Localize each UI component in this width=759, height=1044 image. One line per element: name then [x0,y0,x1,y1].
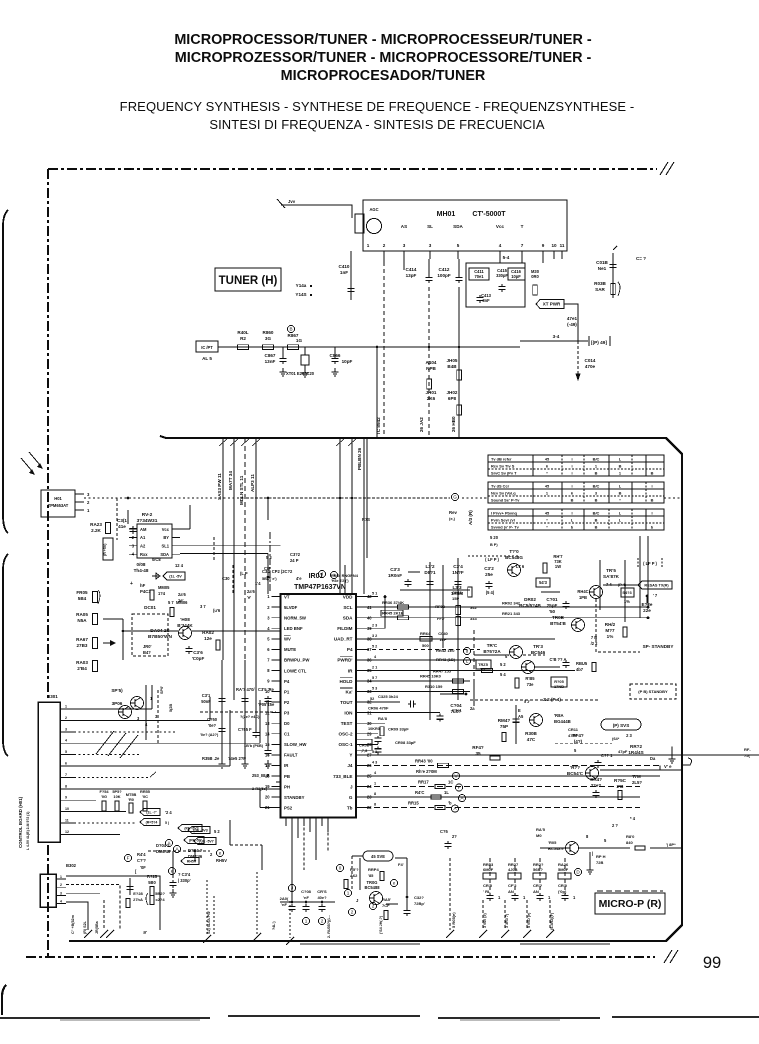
svg-text:LED BNF: LED BNF [284,626,303,631]
svg-text:C3?2: C3?2 [290,552,301,557]
svg-text:3-4: 3-4 [553,334,560,339]
svg-text:9: 9 [65,796,67,800]
resistor RR47 155 [482,668,493,672]
svg-text:2: 2 [372,904,375,909]
svg-text:22e: 22e [643,608,651,613]
svg-text:R860: R860 [263,330,274,335]
wire bottom right [540,847,565,849]
svg-text:Vcc: Vcc [162,527,170,532]
svg-text:P4: P4 [284,679,290,684]
svg-text:'e': 'e' [247,595,251,600]
wire vert x458 [457,558,459,700]
svg-text:(1L -5V: (1L -5V [169,575,182,579]
wire cluster below IC [221,660,223,760]
svg-text:5: 5 [457,243,460,248]
svg-text:SDA: SDA [453,224,463,229]
wire riser C412 [458,287,460,347]
svg-text:'H08: 'H08 [180,617,190,622]
svg-text:5LVDF: 5LVDF [284,605,298,610]
svg-text:D8?1: D8?1 [424,570,436,575]
svg-text:7 4: 7 4 [606,582,612,587]
svg-text:ION: ION [344,710,353,715]
svg-text:5 ): 5 ) [165,821,169,825]
resistor RR64 500 [420,637,432,641]
wire riser TC8942 [376,347,378,438]
svg-text:5 1: 5 1 [372,592,377,596]
svg-text:RA'? 470/: RA'? 470/ [236,687,255,692]
svg-text:3: 3 [65,727,67,731]
svg-text:('0p): ('0p) [558,889,567,894]
svg-text:10: 10 [551,243,557,248]
svg-text:41e: 41e [118,524,126,529]
svg-text:0/C8: 0/C8 [152,557,161,562]
svg-text:RF02: RF02 [435,604,446,609]
svg-text:RR43 '00: RR43 '00 [415,758,433,763]
svg-text:SrvC Sv (Pv T: SrvC Sv (Pv T [491,471,517,476]
svg-text:10K: 10K [113,794,120,799]
svg-text:R4'C: R4'C [415,790,424,795]
svg-text:L 4-5V 4L(B) 2-M 5?2 (1): L 4-5V 4L(B) 2-M 5?2 (1) [26,812,30,850]
svg-text:12 4: 12 4 [175,563,184,568]
svg-text:5B(7/ e'): 5B(7/ e') [262,577,277,581]
svg-text:WV: WV [284,637,291,642]
svg-text:5: 5 [65,750,67,754]
wire TEST row [365,722,385,724]
svg-text:JH02: JH02 [447,390,458,395]
svg-text:1C: 1C [448,780,453,785]
svg-text:UAD_RT: UAD_RT [334,637,353,642]
svg-text:B302: B302 [66,863,77,868]
tuner module MH01 CT-5000T [363,200,567,251]
wire cluster h2 [474,654,509,656]
svg-text:J4: J4 [347,763,353,768]
svg-text:C?04: C?04 [450,703,462,708]
svg-text:C32?: C32? [414,895,424,900]
svg-text:B4B: B4B [447,364,457,369]
label J bottom [288,884,295,891]
svg-text:TMP47P1637VN: TMP47P1637VN [294,584,346,591]
svg-text:R7S: R7S [362,517,370,522]
svg-text:Y: Y [349,753,352,758]
svg-text:B P): B P) [490,543,498,547]
svg-text:45 SVE: 45 SVE [371,854,385,859]
svg-text:2- RU35?)(L..: 2- RU35?)(L.. [327,915,331,938]
svg-text:B: B [595,518,598,523]
wire mid riser1 [267,498,269,520]
svg-text:C1: C1 [284,732,290,737]
svg-text:L: L [466,659,469,664]
svg-text:3 7: 3 7 [200,604,206,609]
svg-text:V' e: V' e [664,764,672,769]
IR beam arrows [21,458,32,471]
resistor R860 [263,345,274,350]
svg-text:840: 840 [626,840,633,845]
svg-text:C'' +B(52m: C'' +B(52m [71,914,75,934]
svg-text:B: B [289,327,292,332]
svg-text:24 P: 24 P [290,558,299,563]
svg-text:H01: H01 [54,496,62,501]
svg-text:C?08: C?08 [301,889,312,894]
svg-text:'nF: 'nF [303,895,309,900]
svg-text:1: 1 [65,705,67,709]
svg-text:1B'b (P6B): 1B'b (P6B) [244,744,264,748]
svg-text:0R0: 0R0 [531,274,539,279]
svg-text:1: 1 [305,919,308,924]
capacitor C866 [334,347,336,356]
resistor S413 [536,578,550,587]
svg-text:TOUT: TOUT [340,700,353,705]
svg-text:Rcv Sv Tlv S: Rcv Sv Tlv S [491,464,515,469]
svg-text:26 HB0: 26 HB0 [451,416,456,432]
svg-text:C'B ?? A: C'B ?? A [550,657,567,662]
wire TR08 [123,630,178,632]
svg-text:RA03: RA03 [76,660,88,665]
svg-text:C?? 1: C?? 1 [601,753,613,758]
svg-text:4b7: 4b7 [576,667,584,672]
transistor TRBA BG444B [530,714,543,727]
wire MDLN STL riser [244,438,246,660]
svg-text:C867: C867 [265,353,276,358]
svg-text:B: B [651,471,654,476]
svg-text:16P: 16P [439,637,446,642]
wire riser C414 [428,287,430,347]
svg-text:'0C: '0C [142,794,148,799]
node B [287,325,294,332]
crystal XT01 [304,347,306,355]
svg-text:R35B .2e: R35B .2e [202,756,220,761]
IR receiver pins [75,493,84,495]
svg-text:PS2: PS2 [284,805,293,810]
svg-text:Sound Se' P-Tv: Sound Se' P-Tv [491,498,520,503]
dashed box DA04 [132,614,168,656]
capacitor C410 [350,251,352,300]
svg-text:342: 342 [470,605,477,610]
svg-text:RR45 10K0: RR45 10K0 [420,674,442,679]
svg-text:C410: C410 [339,264,350,269]
sub shield box [466,263,525,307]
svg-text:'0e? (A2?): '0e? (A2?) [200,733,219,737]
svg-text:d: d [466,649,469,654]
svg-text:100pF: 100pF [437,273,450,278]
wire Tb row [365,807,640,809]
svg-text:(R) S2L: (R) S2L [83,920,87,934]
svg-text:PH: PH [284,784,290,789]
wires B301 to board [74,708,152,710]
svg-text:'0G: '0G [101,794,107,799]
svg-text:AGC: AGC [369,207,378,212]
scan edge artifact bottom [2,985,6,1015]
svg-text:' 7: ' 7 [653,593,658,598]
wire PBLBN riser [366,438,368,558]
svg-text:S2) 5L0A PW: S2) 5L0A PW [207,911,211,934]
svg-text:2 3: 2 3 [372,623,377,627]
wire FILDIM [365,627,385,629]
wire right zone vertical [647,536,649,607]
svg-text:5 00D (e): 5 00D (e) [527,912,531,928]
svg-text:2K6: 2K6 [427,396,436,401]
svg-text:OSC-2: OSC-2 [338,732,352,737]
svg-text:5 1: 5 1 [372,750,377,754]
svg-text:L3'2: L3'2 [425,564,434,569]
svg-text:NORM_5W: NORM_5W [284,616,307,621]
svg-text:C?'?: C?'? [137,858,146,863]
svg-text:'2 4: '2 4 [165,810,172,815]
svg-text:5B0: 5B0 [148,880,156,885]
svg-text:4'e: 4'e [296,576,302,581]
microprocessor IR01 body [281,594,357,818]
svg-text:73e: 73e [527,682,535,687]
svg-text:C3'4: C3'4 [453,564,463,569]
svg-text:2: 2 [321,919,324,924]
resistor RR45b [398,616,409,620]
svg-text:3 3R3 7): 3 3R3 7) [505,913,509,928]
wire standby [596,599,640,652]
svg-text:PWRD': PWRD' [337,658,352,663]
svg-text:,7,8: ,7,8 [361,748,368,753]
wire bottom risers [87,908,89,930]
svg-text:RR15: RR15 [408,801,419,806]
table service mode settings [488,509,664,530]
svg-text:(P) SVS: (P) SVS [613,723,630,728]
svg-text:JH01: JH01 [426,390,437,395]
svg-text:MUTE: MUTE [284,647,296,652]
svg-text:SAR: SAR [595,287,605,292]
svg-text:RR42 1E0: RR42 1E0 [436,648,455,653]
wire hook right [682,758,692,765]
svg-text:B7B50'WN: B7B50'WN [148,634,173,640]
svg-text:RBU5: RBU5 [576,661,588,666]
wire right v3 [659,765,661,770]
svg-text:(u'6: (u'6 [213,608,221,613]
resistor TRZ5 [476,660,491,669]
svg-text:343: 343 [470,616,477,621]
svg-text:10pF: 10pF [511,274,521,279]
svg-text:11: 11 [65,819,69,823]
svg-text:27B3: 27B3 [77,643,88,648]
svg-text:DM4'46: DM4'46 [188,854,203,859]
svg-text:35: 35 [475,751,481,756]
svg-text:C412: C412 [439,267,450,272]
wire bottom strip [291,882,293,902]
svg-text:15P: 15P [452,596,459,601]
wire IR to board dashed [84,497,450,499]
node F [124,854,131,861]
svg-text:R?25: R?25 [147,874,158,879]
svg-text:IR: IR [348,668,353,673]
svg-text:SP0': SP0' [160,686,164,694]
svg-text:MM06: MM06 [176,600,188,605]
svg-text:SL: SL [427,224,433,229]
bus wire [218,346,520,348]
wire MA7T riser [233,438,235,660]
net labels PE [178,825,202,832]
resistor R517 A62 [336,864,343,871]
svg-text:5 2: 5 2 [372,644,377,648]
svg-text:5 3: 5 3 [266,555,272,560]
svg-text:330pF: 330pF [496,273,508,278]
svg-text:M?7: M?7 [605,628,615,633]
svg-text:TUNER (H): TUNER (H) [219,275,278,287]
table AV mode settings [488,482,664,503]
svg-text:R5'?: R5'? [350,867,359,872]
svg-text:25pF: 25pF [547,603,558,608]
IC right pins [356,596,365,598]
svg-text:B: B [571,498,574,503]
svg-text:J: J [321,572,323,577]
svg-text:R310 159: R310 159 [425,684,443,689]
svg-text:13pF: 13pF [406,273,417,278]
node J mid [318,570,325,577]
wire vert x430 [429,562,431,720]
svg-text:2'B4: 2'B4 [77,666,87,671]
svg-text:B4?: B4? [143,650,151,655]
svg-text:Rev: Rev [449,510,457,515]
svg-text:5 2: 5 2 [500,662,506,667]
svg-text:(P B) STANDBY: (P B) STANDBY [638,689,668,694]
svg-text:5 J': 5 J' [524,700,530,704]
svg-text:C3(1: C3(1 [117,518,127,523]
svg-text:MICROPROCESSOR/TUNER - MICROPR: MICROPROCESSOR/TUNER - MICROPROCESSEUR/T… [174,32,592,48]
svg-text:2.2K: 2.2K [91,528,101,533]
wire Ka row [365,691,470,693]
svg-text:14: 14 [265,731,270,736]
svg-text:25e: 25e [485,572,493,577]
label CR01 [356,739,372,750]
svg-text:3?34W31: 3?34W31 [137,518,158,524]
svg-text:500: 500 [422,643,429,648]
page border top [48,168,657,170]
svg-text:i: i [651,484,652,489]
border break mark bottom right [664,950,672,963]
svg-text:Z 2 (P 4): Z 2 (P 4) [543,697,561,702]
svg-text:3G: 3G [265,336,272,341]
svg-text:DM4'46: DM4'46 [156,849,171,854]
svg-text:BRWPU_PW: BRWPU_PW [284,658,310,663]
svg-text:1R0nF: 1R0nF [388,573,402,578]
svg-text:'| 8P*: '| 8P* [666,842,676,847]
svg-text:Rxx: Rxx [140,552,148,557]
net label P SVS [601,719,641,730]
svg-text:I: I [651,511,652,516]
svg-text:BC548'e: BC548'e [548,846,564,851]
wire left col [103,618,123,620]
svg-text:?4L'): ?4L') [272,921,276,930]
svg-text:5 7: 5 7 [372,676,377,680]
svg-text:BC5/5?4B: BC5/5?4B [519,603,541,608]
net label RESAS TX [638,581,672,589]
svg-text:2a'6: 2a'6 [247,589,256,594]
svg-text:C3'3: C3'3 [390,567,400,572]
svg-text:C3'1: C3'1 [202,693,211,698]
svg-text:E: E [518,708,521,713]
svg-text:R'B5: R'B5 [525,676,535,681]
svg-text:STANDBY: STANDBY [284,795,305,800]
resistor R310 159 [453,689,464,693]
wire J row [365,786,640,788]
svg-text:M0: M0 [536,833,542,838]
svg-text:Th4-48: Th4-48 [134,568,149,573]
resistor RA51 7CF [369,902,376,909]
svg-text:'6?: '6? [480,667,486,672]
net label R-524 [140,819,160,826]
svg-text:C866: C866 [330,353,341,358]
table TV mode settings [488,455,664,476]
wire ALP3 riser [255,438,257,660]
wire SAS3 PW riser [222,438,224,660]
svg-text:hF: hF [140,583,146,588]
svg-text:B/C: B/C [593,484,600,489]
wire G row [365,796,640,798]
svg-text:P2: P2 [284,700,290,705]
svg-text:3 060 (#): 3 060 (#) [483,912,487,928]
svg-text:TPM653AT: TPM653AT [48,503,69,508]
svg-text:R4'4: R4'4 [137,852,146,857]
svg-text:RA5': RA5' [382,897,391,902]
svg-text:RA67: RA67 [76,637,88,642]
svg-text:1%: 1% [607,634,614,639]
svg-text:MM05: MM05 [158,585,170,590]
svg-text:17NB: 17NB [554,684,564,689]
svg-text:I Prvv+ Pbvnq: I Prvv+ Pbvnq [491,511,517,516]
svg-text:CR06 470F: CR06 470F [368,706,389,711]
svg-text:47C: 47C [527,737,536,742]
svg-text:FAULT: FAULT [284,753,298,758]
svg-text:RH4C: RH4C [577,589,588,594]
svg-text:AM: AM [140,527,147,532]
svg-text:7: 7 [521,243,524,248]
svg-text:F: F [458,785,461,790]
svg-text:1%: 1% [624,599,630,604]
svg-text:A1: A1 [140,535,146,540]
net label R+5V rotated [103,538,113,560]
node G [451,493,458,500]
svg-text:JR(5Ba: JR(5Ba [95,920,99,934]
svg-text:Jvv: Jvv [288,199,296,204]
net label 1L-5V [163,572,185,580]
label UE-5V [188,827,210,834]
svg-text:R03B: R03B [594,281,606,286]
svg-text:AN: AN [508,889,514,894]
svg-text:('S4 JH(.?): ('S4 JH(.?) [379,915,383,934]
svg-text:DR02: DR02 [524,597,536,602]
svg-text:Da: Da [650,756,656,761]
svg-text:L7 6: L7 6 [516,564,525,569]
svg-text:AL 5: AL 5 [202,356,212,361]
svg-text:2: 2 [383,243,386,248]
resistor RR36 [398,605,409,609]
svg-text:MA7T 34: MA7T 34 [228,471,233,490]
svg-text:11: 11 [560,243,565,248]
svg-text:CR4?: CR4? [590,777,602,782]
label 1 bottom [344,889,351,896]
svg-text:3: 3 [429,243,432,248]
svg-text:9: 9 [542,243,545,248]
svg-text:Pvrn Sevr (vl: Pvrn Sevr (vl [491,518,515,523]
wire VDD [365,596,378,598]
svg-text:[(P) 49]: [(P) 49] [591,340,607,345]
svg-text:G: G [349,795,353,800]
svg-text:RA05: RA05 [76,612,88,617]
svg-text:C040: C040 [438,631,448,636]
svg-text:BC546: BC546 [531,650,546,655]
svg-text:C3'5 'Re: C3'5 'Re [258,687,275,692]
svg-text:MICRO-P (R): MICRO-P (R) [599,898,662,910]
scan edge artifact lower [3,554,8,756]
svg-text:F: F [127,856,130,861]
svg-text:2: 2 [65,716,67,720]
svg-text:2'B: 2'B [617,784,625,789]
svg-text:TR'3: TR'3 [533,644,543,649]
